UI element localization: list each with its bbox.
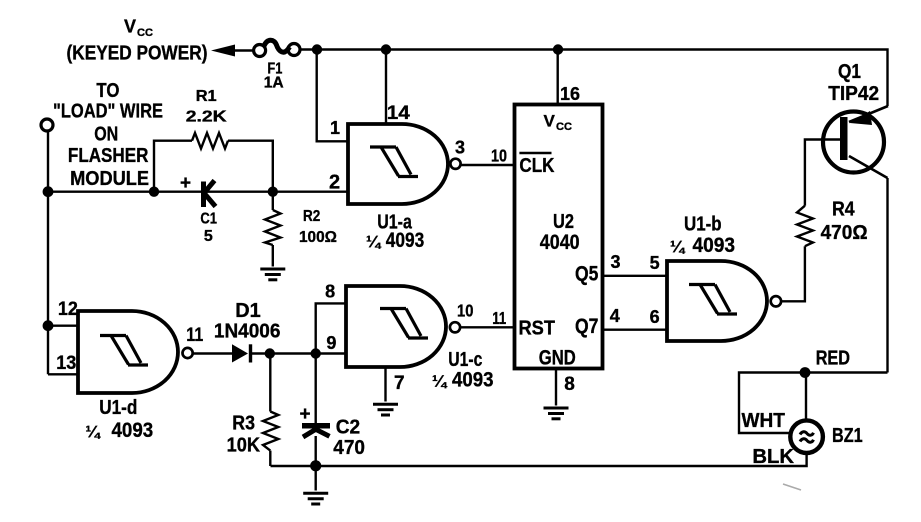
svg-text:470Ω: 470Ω: [821, 222, 868, 245]
wire: U1-a out to CLK: [461, 164, 516, 166]
wire: U1-d out to D1: [193, 352, 232, 354]
svg-text:V: V: [124, 17, 136, 37]
svg-text:4093: 4093: [386, 230, 424, 253]
terminal circle: [41, 119, 53, 131]
node dot left: [43, 186, 54, 197]
wire: RED node and WHT loop: [739, 373, 888, 434]
svg-text:U1-c: U1-c: [448, 348, 482, 370]
svg-text:¼: ¼: [85, 422, 101, 441]
svg-text:U1-b: U1-b: [684, 212, 722, 235]
wire: Q7 to pin6: [603, 329, 668, 331]
ground under U2: [544, 408, 569, 419]
resistor R3: [263, 354, 278, 467]
svg-text:16: 16: [560, 83, 580, 104]
node dot RED: [800, 367, 811, 378]
svg-text:RST: RST: [519, 318, 556, 340]
svg-text:Q7: Q7: [575, 315, 598, 339]
net label Vcc (keyed power): [124, 17, 153, 39]
svg-text:+: +: [300, 404, 311, 425]
wire pin 12: [48, 325, 78, 327]
svg-text:1: 1: [330, 118, 340, 138]
svg-text:U2: U2: [553, 209, 574, 232]
diode D1: [232, 344, 251, 362]
svg-text:1A: 1A: [264, 74, 284, 91]
svg-text:2.2K: 2.2K: [186, 107, 227, 125]
svg-text:8: 8: [564, 374, 575, 395]
svg-text:Q1: Q1: [838, 60, 861, 83]
svg-text:R3: R3: [232, 413, 255, 435]
node dot rail-pin1: [312, 44, 322, 54]
wire: R4 top to Q1 base: [805, 140, 840, 206]
node dot R1 left: [149, 187, 159, 197]
svg-text:2: 2: [329, 172, 340, 194]
IC U2 4040: [515, 105, 603, 369]
svg-text:MODULE: MODULE: [70, 168, 149, 190]
svg-text:¼: ¼: [432, 372, 448, 391]
wire: RED dot to buzzer top: [805, 373, 807, 421]
svg-text:FLASHER: FLASHER: [68, 144, 149, 167]
svg-text:GND: GND: [539, 347, 576, 370]
wire: U1-c pin7 stem: [384, 367, 386, 402]
svg-text:5: 5: [204, 228, 213, 245]
svg-text:TIP42: TIP42: [828, 83, 879, 105]
scan artifact: [783, 484, 801, 490]
capacitor C1: [204, 181, 216, 208]
wire: U1-c out to RST: [461, 326, 516, 328]
svg-text:RED: RED: [816, 347, 850, 369]
wire: collector down right side: [886, 178, 888, 373]
wire: Q5 to pin5: [603, 275, 668, 277]
svg-text:V: V: [544, 112, 556, 131]
svg-text:10K: 10K: [227, 435, 261, 457]
svg-text:U1-d: U1-d: [99, 396, 137, 419]
resistor R1: [154, 133, 273, 192]
wire: Vcc arrow: [211, 45, 235, 57]
wire: drop to pin16: [557, 50, 559, 106]
svg-text:C1: C1: [200, 210, 217, 228]
node dot rail-pin14: [381, 44, 391, 54]
ground pin7: [373, 404, 398, 415]
node dot pin9-C2: [311, 348, 321, 358]
svg-text:+: +: [180, 173, 191, 194]
wire: main node horizontal: [48, 190, 348, 192]
wire: pin8: [316, 303, 346, 353]
svg-text:4040: 4040: [540, 231, 580, 255]
svg-text:5: 5: [650, 253, 660, 273]
resistor R2: [265, 192, 281, 267]
svg-text:6: 6: [650, 307, 660, 327]
node dot rail-pin16: [553, 44, 563, 54]
svg-text:7: 7: [394, 373, 405, 394]
buzzer BZ1: [790, 420, 823, 453]
svg-text:CLK: CLK: [519, 154, 555, 177]
resistor R4: [797, 206, 813, 247]
svg-text:470: 470: [333, 437, 365, 460]
svg-text:CC: CC: [137, 27, 153, 39]
wire: left vertical: [47, 131, 49, 374]
nand gate U1-d: [78, 311, 193, 393]
svg-text:(KEYED POWER): (KEYED POWER): [67, 41, 208, 63]
wire: buzzer bottom to rail: [271, 453, 807, 466]
svg-text:CC: CC: [556, 121, 572, 133]
svg-text:11: 11: [492, 309, 506, 328]
svg-text:BLK: BLK: [752, 446, 794, 468]
svg-text:10: 10: [491, 146, 507, 166]
svg-text:4: 4: [610, 306, 620, 326]
svg-text:10: 10: [457, 301, 473, 321]
svg-text:4093: 4093: [452, 369, 494, 392]
svg-text:R1: R1: [196, 87, 217, 105]
node dot D1-R3: [265, 348, 275, 358]
wire pin 13: [48, 373, 78, 375]
svg-text:Q5: Q5: [575, 262, 599, 286]
svg-text:BZ1: BZ1: [832, 424, 863, 446]
svg-text:100Ω: 100Ω: [299, 229, 337, 246]
svg-text:ON: ON: [94, 123, 118, 145]
wire: stem to ground: [315, 466, 317, 491]
svg-text:WHT: WHT: [742, 410, 785, 433]
wire: drop to pin1: [317, 50, 348, 142]
nand gate U1-c: [346, 286, 460, 367]
node dot R1 right R2 top: [268, 187, 278, 197]
svg-text:9: 9: [326, 333, 336, 353]
svg-text:4093: 4093: [693, 234, 735, 257]
svg-text:R4: R4: [832, 199, 855, 221]
ground under R2: [260, 269, 285, 280]
wire: D1 to pin9: [251, 352, 347, 354]
svg-text:13: 13: [56, 352, 76, 374]
svg-text:8: 8: [325, 282, 335, 302]
svg-text:4093: 4093: [112, 419, 154, 442]
wire: top Vcc rail: [300, 50, 888, 107]
svg-text:R2: R2: [303, 208, 320, 225]
nand gate U1-b: [667, 261, 781, 341]
wire: drop to pin14: [385, 50, 387, 125]
svg-text:3: 3: [455, 138, 465, 158]
fuse F1: [254, 40, 300, 56]
label Vcc in U2: [544, 112, 572, 134]
wire: U2 pin8 stem: [555, 369, 557, 406]
transistor Q1: [823, 106, 888, 178]
svg-text:14: 14: [387, 103, 410, 124]
svg-text:"LOAD" WIRE: "LOAD" WIRE: [53, 99, 163, 122]
svg-text:1N4006: 1N4006: [214, 320, 281, 343]
svg-text:D1: D1: [235, 300, 260, 322]
svg-text:11: 11: [186, 324, 203, 346]
nand gate U1-a: [348, 124, 461, 204]
svg-text:3: 3: [611, 252, 621, 272]
wire: U1-b out up to R4: [781, 246, 805, 301]
svg-text:12: 12: [58, 298, 78, 320]
ground under C2: [303, 493, 328, 504]
svg-text:TO: TO: [96, 79, 119, 102]
svg-text:C2: C2: [336, 416, 361, 438]
svg-text:¼: ¼: [670, 237, 686, 256]
svg-text:¼: ¼: [366, 232, 382, 251]
capacitor C2: [302, 354, 330, 467]
node dot C2 ground: [310, 460, 321, 471]
node dot pin12: [43, 320, 54, 331]
